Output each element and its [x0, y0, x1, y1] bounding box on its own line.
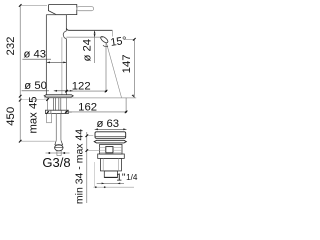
svg-text:ø 63: ø 63	[96, 118, 119, 130]
svg-text:450: 450	[5, 107, 17, 126]
svg-text:min 34 - max 44: min 34 - max 44	[74, 129, 86, 204]
svg-text:15°: 15°	[110, 35, 128, 49]
svg-text:122: 122	[72, 80, 91, 92]
svg-text:232: 232	[5, 37, 17, 56]
svg-text:1"1/4: 1"1/4	[116, 172, 138, 183]
svg-text:G3/8: G3/8	[42, 155, 70, 170]
svg-text:162: 162	[78, 101, 97, 113]
svg-text:ø 50: ø 50	[24, 80, 47, 92]
svg-text:ø 24: ø 24	[82, 39, 94, 62]
svg-text:ø 43: ø 43	[23, 49, 46, 61]
svg-text:147: 147	[121, 54, 133, 73]
svg-text:max 45: max 45	[28, 96, 40, 133]
